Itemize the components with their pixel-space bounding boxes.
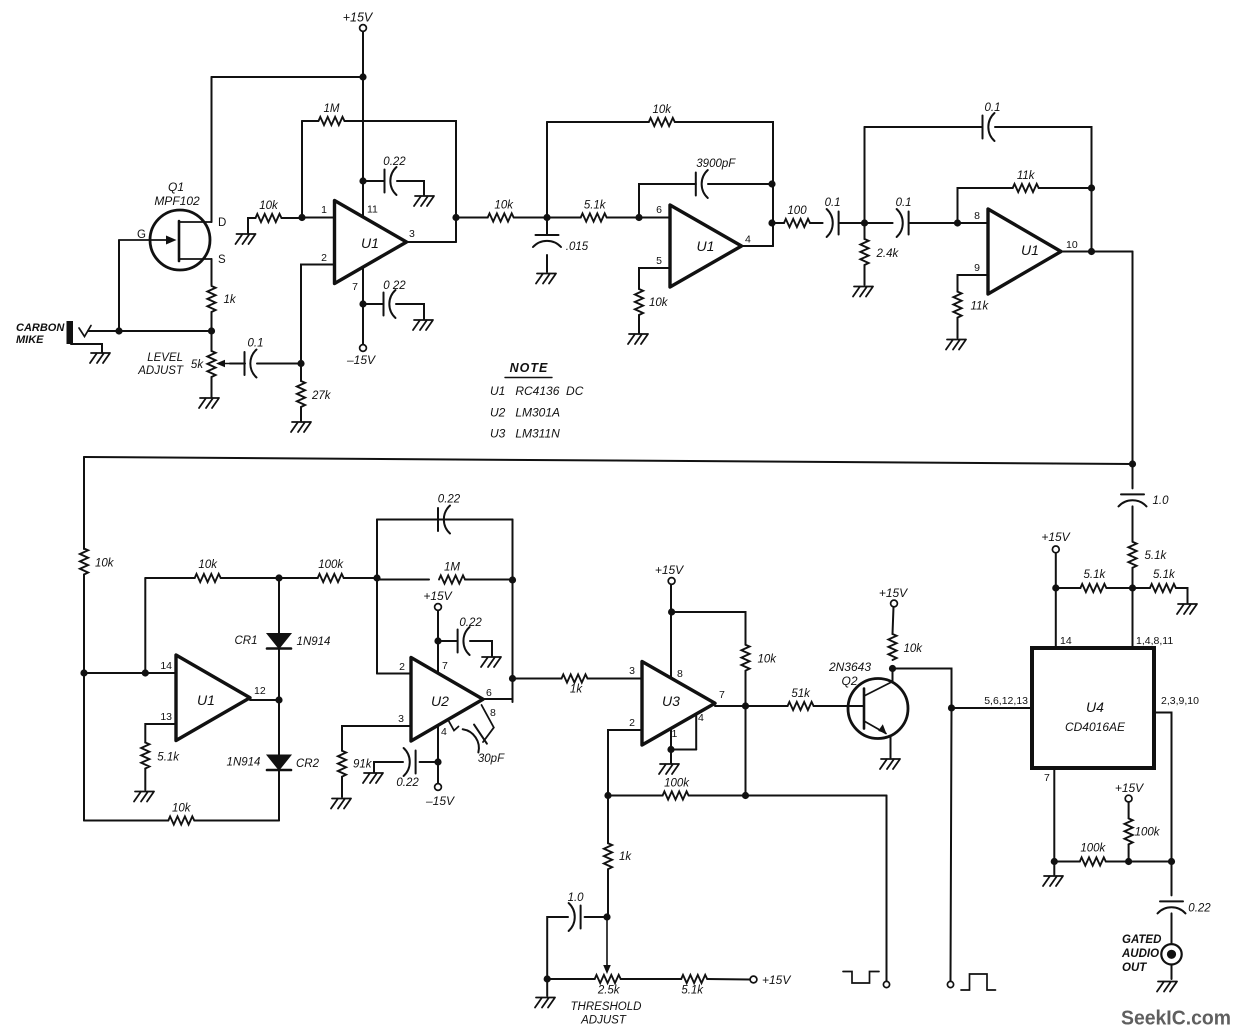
resistor 5.1k (stage2) xyxy=(581,213,607,221)
junction 11k / 0.1 feedback xyxy=(1088,184,1095,191)
svg-text:0.22: 0.22 xyxy=(459,617,482,629)
junction CR1 / 100k node xyxy=(275,574,282,581)
terminal +15V (top) xyxy=(360,25,367,32)
wire 2.5k to 5.1k xyxy=(621,978,682,980)
junction +15V / pin14 xyxy=(1052,584,1059,591)
connector carbon mike jack xyxy=(67,321,74,344)
wire threshold node to ground xyxy=(546,979,548,996)
ground (output jack) xyxy=(1157,982,1177,992)
wire pin2 node down to 1k xyxy=(607,796,609,844)
svg-text:U4: U4 xyxy=(1086,699,1104,715)
svg-text:0.22: 0.22 xyxy=(383,156,406,168)
resistor 1M (U2 feedback) xyxy=(439,575,465,583)
svg-text:3900pF: 3900pF xyxy=(696,158,736,170)
svg-text:8: 8 xyxy=(677,668,683,680)
ground (5.1k bias) xyxy=(1177,604,1197,614)
svg-text:2N3643: 2N3643 xyxy=(828,660,871,674)
capacitor 0.1 (interstage a) xyxy=(827,209,839,237)
junction 100k row left / pin2 xyxy=(604,792,611,799)
svg-text:100k: 100k xyxy=(1080,843,1106,855)
svg-text:0.1: 0.1 xyxy=(896,197,912,209)
wire ground to 10k xyxy=(248,218,256,233)
svg-text:7: 7 xyxy=(1044,772,1050,784)
terminal -15V (U1a) xyxy=(360,345,367,352)
svg-text:3: 3 xyxy=(629,665,635,677)
junction +15V rail / U1a pin11 feed xyxy=(359,73,366,80)
svg-text:100k: 100k xyxy=(664,778,690,790)
wire 0.1b to pin8 node xyxy=(909,222,958,224)
wire Q2 collector to U4 input xyxy=(893,669,952,709)
wire 10k pullup to output node xyxy=(745,671,747,706)
junction U4 input / test point 2 xyxy=(948,704,955,711)
svg-text:4: 4 xyxy=(441,726,447,738)
svg-text:GATED: GATED xyxy=(1122,934,1161,946)
op-amp U1a (RC4136 section 1) xyxy=(335,201,407,284)
svg-text:CARBON: CARBON xyxy=(16,322,65,334)
resistor 100k (hysteresis) xyxy=(663,791,689,799)
svg-text:91k: 91k xyxy=(353,759,373,771)
svg-text:10k: 10k xyxy=(198,559,218,571)
wire pin14 node wire xyxy=(84,672,176,674)
junction U4 signal node xyxy=(1129,584,1136,591)
wire to 0.22 bypass (pin7) xyxy=(363,303,384,305)
wire U2 output to box right xyxy=(483,679,513,700)
diode CR1 1N914 xyxy=(267,634,291,649)
wire 100k left lead xyxy=(279,577,318,579)
ground (10k pin5) xyxy=(628,334,648,344)
wire U3 pin 4 stub xyxy=(695,714,697,750)
resistor 100k (to U2) xyxy=(318,574,344,582)
wire pin7 to ground xyxy=(1053,862,1055,876)
wire U3 pin 1 stub xyxy=(670,729,672,750)
resistor 1k (Q1 source) xyxy=(207,286,215,312)
svg-text:2: 2 xyxy=(399,661,405,673)
svg-text:2,3,9,10: 2,3,9,10 xyxy=(1161,695,1199,707)
wire pot bottom to ground xyxy=(211,377,213,397)
wire 100k row right lead xyxy=(689,795,746,797)
svg-text:100k: 100k xyxy=(318,559,344,571)
svg-text:1N914: 1N914 xyxy=(227,757,261,769)
wire pin1 to ground xyxy=(670,750,672,764)
wire 5.1k to pin6 node xyxy=(607,217,639,219)
wire CR2 down to bottom 10k row xyxy=(278,770,280,821)
wire 3900pF branch xyxy=(639,184,696,218)
svg-text:5.1k: 5.1k xyxy=(157,752,180,764)
wire 1M right lead to output corner xyxy=(345,121,457,218)
wire pin6 node to U1b pin 6 xyxy=(639,217,670,219)
wire 27k to ground xyxy=(300,407,302,421)
wire U3 out node down to 100k row xyxy=(745,706,747,796)
svg-text:8: 8 xyxy=(490,707,496,719)
wire U2 feedback box left vertical xyxy=(376,520,378,674)
svg-text:1.0: 1.0 xyxy=(1153,495,1170,507)
wire output down right side xyxy=(1132,252,1134,465)
junction pin1 / ground (U3) xyxy=(667,746,674,753)
wire 10k to pin14 node xyxy=(83,575,85,674)
capacitor 30pF (U2 compensation) xyxy=(463,723,489,753)
svg-text:7: 7 xyxy=(352,281,358,293)
wire to 0.22 bypass (pin11) xyxy=(363,180,385,182)
svg-text:10k: 10k xyxy=(95,558,115,570)
capacitor 0.22 (output coupling) xyxy=(1158,901,1186,913)
wire U2 pin 3 xyxy=(342,726,411,751)
svg-text:1k: 1k xyxy=(570,684,583,696)
svg-text:1k: 1k xyxy=(224,294,237,306)
wire jack to ground xyxy=(1171,965,1173,980)
wire feedback down to output xyxy=(1091,188,1093,251)
junction +15V / 0.22 bypass (U2) xyxy=(434,637,441,644)
transistor Q2 2N3643 xyxy=(848,679,908,739)
svg-text:100k: 100k xyxy=(1135,826,1161,838)
resistor 1k (U3 input) xyxy=(562,674,588,682)
wire Q2 emitter to ground xyxy=(890,736,892,759)
ground (.015) xyxy=(536,274,556,284)
svg-text:+15V: +15V xyxy=(879,586,908,600)
ground (2.4k) xyxy=(853,287,873,297)
junction gate / mike / level pot xyxy=(115,327,122,334)
wire 100k right lead xyxy=(344,577,377,579)
wire 10k to +15V (Q2) xyxy=(893,607,894,634)
resistor 10k (bottom row) xyxy=(168,816,194,824)
terminal -15V (U2) xyxy=(435,784,442,791)
diode CR2 1N914 xyxy=(267,755,291,770)
wire threshold row to 2.5k xyxy=(547,978,595,980)
wire +15V to 100k vertical xyxy=(1128,802,1130,818)
wire bottom 10k row right xyxy=(194,820,279,822)
junction 27k / U1a pin 2 xyxy=(297,360,304,367)
wire U3 output to 51k xyxy=(715,705,788,707)
wire U1b pin 5 xyxy=(639,268,670,289)
ground (11k pin9) xyxy=(946,340,966,350)
svg-text:10k: 10k xyxy=(494,200,514,212)
svg-text:.015: .015 xyxy=(566,241,589,253)
svg-text:3: 3 xyxy=(409,228,415,240)
svg-text:0.1: 0.1 xyxy=(985,102,1001,114)
junction U2 output node xyxy=(509,675,516,682)
terminal +15V (Q2) xyxy=(891,600,898,607)
op-amp U1b (RC4136 section 2) xyxy=(670,205,742,287)
wire bus node down to 1.0 cap xyxy=(1132,464,1134,488)
wire 1.0 cap to ground corner xyxy=(547,917,568,979)
potentiometer 2.5k THRESHOLD ADJUST xyxy=(595,975,621,983)
resistor 10k (stage2 feedback) xyxy=(649,118,675,126)
junction pin7 / 100k xyxy=(1051,858,1058,865)
wire pin14 node up to 10k row xyxy=(144,578,146,673)
svg-text:10k: 10k xyxy=(172,803,192,815)
wire bottom 10k row left xyxy=(84,820,168,822)
svg-text:7: 7 xyxy=(719,689,725,701)
wire 10k row to CR node xyxy=(221,577,279,579)
wire 1M U2 left lead xyxy=(377,579,429,581)
wire U1d pin 13 xyxy=(145,724,176,743)
svg-text:0.22: 0.22 xyxy=(438,494,461,506)
ground (mike) xyxy=(90,353,110,363)
svg-text:CD4016AE: CD4016AE xyxy=(1065,720,1126,734)
wire U1a pin 7 down to -15V xyxy=(362,268,364,345)
terminal +15V (output bias) xyxy=(1125,795,1132,802)
capacitor .015 xyxy=(533,235,561,247)
svg-text:Q2: Q2 xyxy=(841,674,857,688)
ground (Q2 emitter) xyxy=(880,759,900,769)
wire pin14 down to U4 xyxy=(1055,588,1057,648)
svg-text:0.22: 0.22 xyxy=(1188,902,1211,914)
terminal +15V (U2) xyxy=(435,604,442,611)
svg-text:10k: 10k xyxy=(259,200,279,212)
svg-text:30pF: 30pF xyxy=(478,753,505,765)
junction source-1k / pot top xyxy=(208,327,215,334)
capacitor 0.22 (V- bypass U1a) xyxy=(384,290,396,318)
wire 3900pF to feedback node xyxy=(708,183,772,185)
junction 100k row right xyxy=(742,792,749,799)
wire 0.22 bypass to ground xyxy=(397,181,424,195)
resistor 10k (stage2 series) xyxy=(488,213,514,221)
svg-text:ADJUST: ADJUST xyxy=(137,365,184,377)
ground (27k) xyxy=(291,422,311,432)
wire pin8 node up to 11k xyxy=(958,188,1013,223)
wire +15V down to U3 pin 8 xyxy=(670,585,672,679)
junction U3 output node xyxy=(742,702,749,709)
wire 0.22 U2 bypass to ground xyxy=(470,641,492,656)
wire pin1-pin4 link xyxy=(671,749,696,751)
junction stage2 input node xyxy=(543,214,550,221)
wire mike sleeve to ground xyxy=(71,344,102,352)
wire pin8 node to U1c pin 8 xyxy=(958,222,989,224)
svg-text:3: 3 xyxy=(398,713,404,725)
svg-text:0 22: 0 22 xyxy=(383,280,406,292)
terminal +15V (U3) xyxy=(668,578,675,585)
wire 5.1k to +15V terminal xyxy=(707,978,750,981)
wire 100k vertical to node xyxy=(1128,844,1130,861)
svg-text:1M: 1M xyxy=(444,562,460,574)
svg-text:1k: 1k xyxy=(619,851,632,863)
junction U1a output node xyxy=(452,214,459,221)
svg-text:U3 LM311N: U3 LM311N xyxy=(490,427,560,441)
resistor 100k (output bias) xyxy=(1125,818,1133,844)
capacitor 0.22 (U2 feedback) xyxy=(438,506,450,534)
capacitor 3900pF xyxy=(696,170,708,198)
svg-text:1,4,8,11: 1,4,8,11 xyxy=(1136,635,1173,647)
resistor 5.1k (threshold) xyxy=(681,975,707,983)
svg-text:U2: U2 xyxy=(431,693,449,709)
wire node to 5.1k xyxy=(547,217,581,219)
wire 1.0 cap right lead xyxy=(585,916,607,918)
ground (91k) xyxy=(331,799,351,809)
svg-text:1: 1 xyxy=(321,204,327,216)
svg-text:OUT: OUT xyxy=(1122,962,1147,974)
wire .015 top lead xyxy=(546,218,548,236)
svg-text:10k: 10k xyxy=(758,654,778,666)
svg-text:14: 14 xyxy=(160,660,172,672)
svg-text:U1: U1 xyxy=(1021,242,1039,258)
wire 100k line to test point 1 xyxy=(886,796,888,982)
svg-text:LEVEL: LEVEL xyxy=(147,352,183,364)
junction output node xyxy=(1168,858,1175,865)
svg-text:CR2: CR2 xyxy=(296,758,320,770)
wire pin1 node up to 1M xyxy=(301,121,303,218)
junction V+ / 0.22 bypass xyxy=(359,177,366,184)
svg-text:U1: U1 xyxy=(361,235,379,251)
wire test point 2 down xyxy=(951,708,952,981)
wire U2 pin 4 down to -15V xyxy=(437,725,439,783)
wire 10k to stage2 node xyxy=(514,217,547,219)
op-amp U1c (RC4136 section 3) xyxy=(988,209,1061,294)
junction left node / U1d pin14 xyxy=(80,669,87,676)
svg-text:2: 2 xyxy=(321,252,327,264)
resistor 5.1k (bias right) xyxy=(1150,584,1176,592)
svg-text:5.1k: 5.1k xyxy=(1145,550,1168,562)
wire 11k pin9 to ground xyxy=(957,318,959,338)
resistor 91k xyxy=(338,751,346,777)
junction 100k pair xyxy=(1125,858,1132,865)
svg-text:G: G xyxy=(137,229,146,241)
wire 0.22 to jack xyxy=(1171,913,1173,944)
wire 100k row left lead xyxy=(608,795,663,797)
waveform symbol (positive pulse) xyxy=(961,974,996,990)
wire 5.1k gnd left lead xyxy=(1133,587,1150,589)
resistor 10k (U1d input row) xyxy=(195,574,221,582)
svg-text:U3: U3 xyxy=(662,693,680,709)
wire pin12 node to U1d output xyxy=(250,699,279,701)
svg-text:0.1: 0.1 xyxy=(248,338,264,350)
svg-text:10: 10 xyxy=(1066,239,1078,251)
terminal +15V (threshold) xyxy=(750,976,757,983)
svg-text:8: 8 xyxy=(974,210,980,222)
wire U2 pin2 xyxy=(377,673,411,675)
svg-text:2.4k: 2.4k xyxy=(876,248,900,260)
svg-text:+15V: +15V xyxy=(1115,781,1144,795)
junction Q2 collector / 10k xyxy=(889,665,896,672)
svg-text:U1 RC4136 DC: U1 RC4136 DC xyxy=(490,384,584,398)
svg-text:9: 9 xyxy=(974,262,980,274)
ground (0.22 U2 V-) xyxy=(363,773,383,783)
wire U1b output xyxy=(742,245,774,247)
svg-text:ADJUST: ADJUST xyxy=(580,1015,627,1027)
resistor 10k (bus left) xyxy=(80,549,88,575)
wire 100k right lead (out) xyxy=(1106,861,1129,863)
wire 1M U2 right lead xyxy=(465,579,513,581)
svg-text:AUDIO: AUDIO xyxy=(1121,948,1159,960)
resistor 10k (U3 pullup) xyxy=(741,645,749,671)
junction pin8 / 11k feedback xyxy=(954,219,961,226)
wire 0.1 cap to 27k node xyxy=(257,363,301,365)
svg-text:–15V: –15V xyxy=(425,794,455,808)
wire 1M left lead xyxy=(302,120,318,122)
junction pin6 / 3900pF xyxy=(635,214,642,221)
wire 5.1k bias right lead xyxy=(1106,587,1132,589)
svg-text:13: 13 xyxy=(160,711,172,723)
wire U1a output to node xyxy=(407,241,457,243)
ground (0.22 V- bypass) xyxy=(413,320,433,330)
wire +15V U4 down xyxy=(1055,553,1057,588)
wire 10k feedback left lead xyxy=(547,121,649,123)
wire output up to out node xyxy=(772,223,774,246)
svg-text:11k: 11k xyxy=(1017,170,1036,182)
wire 0.22 pin4 right lead xyxy=(420,761,438,763)
wiper arrow of 2.5k pot xyxy=(606,917,608,966)
junction 2.4k node xyxy=(861,219,868,226)
capacitor 0.22 (U2 V+ bypass) xyxy=(458,627,470,655)
wire 1k to wiper node xyxy=(607,869,609,917)
wire U4 pin 7 down xyxy=(1053,768,1055,862)
wire 0.1a to 2.4k node xyxy=(839,222,865,224)
svg-text:0.1: 0.1 xyxy=(825,197,841,209)
wire 100k left lead (out) xyxy=(1054,861,1080,863)
wire 5.1k to ground xyxy=(144,769,146,791)
connector GATED AUDIO OUT jack xyxy=(1161,944,1181,964)
capacitor 0.1 (interstage b) xyxy=(897,209,909,237)
junction stage2 output node xyxy=(768,219,775,226)
junction U1c output node xyxy=(1088,248,1095,255)
svg-text:5k: 5k xyxy=(191,359,204,371)
capacitor 0.1 (mike coupling) xyxy=(245,350,257,378)
wire node up to U1a pin 2 xyxy=(301,265,335,364)
ground (0.22 U2 bypass) xyxy=(481,657,501,667)
wire 5.1k gnd to ground xyxy=(1176,588,1188,603)
wire to U4 control pins xyxy=(952,707,1033,709)
resistor 11k (stage3 feedback) xyxy=(1013,184,1039,192)
ground (0.22 V+ bypass) xyxy=(414,196,434,206)
wire Q2 collector up xyxy=(892,669,894,683)
capacitor 1.0 (threshold) xyxy=(569,903,581,931)
svg-text:12: 12 xyxy=(254,685,266,697)
wire Q1 source down to 1k xyxy=(211,259,213,285)
svg-text:+15V: +15V xyxy=(655,563,684,577)
svg-text:1: 1 xyxy=(672,728,678,740)
junction +15V U3 / 10k branch xyxy=(668,608,675,615)
terminal +15V (U4) xyxy=(1052,546,1059,553)
capacitor 0.1 (stage3 feedback) xyxy=(983,113,995,141)
svg-text:5.1k: 5.1k xyxy=(1084,569,1107,581)
svg-text:Q1: Q1 xyxy=(168,180,184,194)
svg-text:10k: 10k xyxy=(653,104,673,116)
svg-text:1N914: 1N914 xyxy=(297,636,331,648)
ground (threshold) xyxy=(535,998,555,1008)
svg-text:0.22: 0.22 xyxy=(396,777,419,789)
svg-text:D: D xyxy=(218,217,226,229)
junction 3900pF / feedback xyxy=(768,180,775,187)
wire output to right edge xyxy=(1092,251,1133,253)
svg-text:NOTE: NOTE xyxy=(510,361,549,375)
svg-text:U1: U1 xyxy=(197,692,215,708)
wire pin12 node down to CR2 xyxy=(278,700,280,755)
wire feedback down to output xyxy=(772,184,774,246)
svg-text:THRESHOLD: THRESHOLD xyxy=(571,1001,642,1013)
resistor 27k xyxy=(297,381,305,407)
wire bus down left side xyxy=(83,457,85,549)
underline of NOTE xyxy=(505,377,552,379)
capacitor 1.0 (U4 input) xyxy=(1119,494,1147,506)
ground (10k to U1a pin1) xyxy=(236,234,256,244)
svg-text:SeekIC.com: SeekIC.com xyxy=(1121,1007,1231,1030)
op-amp U2 LM301A xyxy=(411,658,483,742)
ground (U3 pin1) xyxy=(659,764,679,774)
svg-text:+15V: +15V xyxy=(762,973,791,987)
wire mike tip to gate node xyxy=(88,330,119,332)
resistor 1k (threshold) xyxy=(604,843,612,869)
wire 0.1 feedback left xyxy=(865,126,983,128)
svg-text:2.5k: 2.5k xyxy=(597,985,621,997)
wire out node to 100 resistor xyxy=(772,222,784,224)
resistor 10k (U1b pin5) xyxy=(635,289,643,315)
svg-text:U2 LM301A: U2 LM301A xyxy=(490,406,560,420)
wire 5.1k bias left lead xyxy=(1056,587,1081,589)
wire 10k to pin1 node xyxy=(282,217,303,219)
wire 10k pin5 to ground xyxy=(638,315,640,333)
wire CR1 to pin12 node xyxy=(278,649,280,701)
svg-text:10k: 10k xyxy=(649,297,669,309)
svg-text:CR1: CR1 xyxy=(234,635,257,647)
wire 2.4k top lead xyxy=(864,223,866,239)
